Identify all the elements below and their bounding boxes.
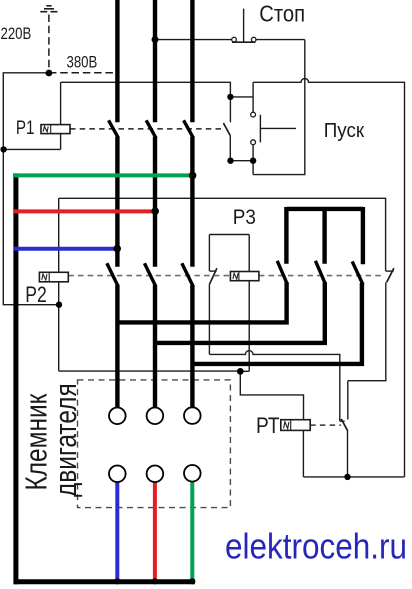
svg-text:380В: 380В bbox=[67, 53, 98, 72]
svg-text:Пуск: Пуск bbox=[324, 119, 365, 142]
svg-text:РТ: РТ bbox=[256, 414, 280, 439]
svg-text:Р2: Р2 bbox=[25, 283, 47, 307]
svg-text:Стоп: Стоп bbox=[259, 0, 305, 27]
svg-text:Р3: Р3 bbox=[233, 206, 256, 229]
svg-text:elektroceh.ru: elektroceh.ru bbox=[225, 527, 407, 567]
svg-text:двигателя: двигателя bbox=[48, 383, 82, 497]
svg-text:Р1: Р1 bbox=[16, 116, 35, 138]
svg-text:220В: 220В bbox=[1, 24, 32, 43]
